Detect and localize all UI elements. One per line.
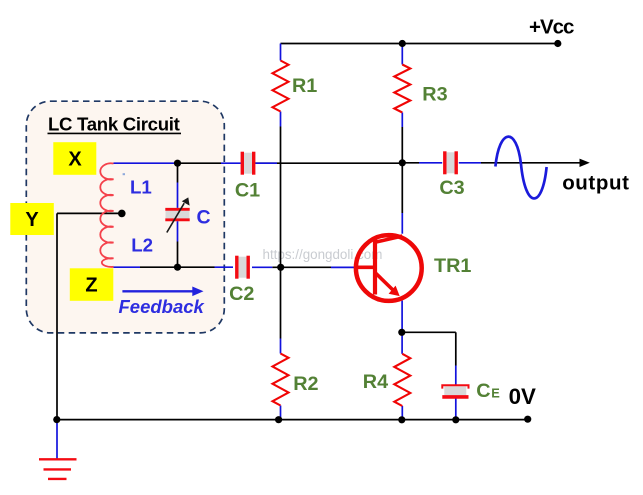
svg-text:C3: C3 [439,177,464,199]
svg-text:TR1: TR1 [434,255,471,277]
svg-text:L1: L1 [130,177,152,198]
svg-text:Z: Z [85,275,97,297]
svg-text:R2: R2 [293,373,318,395]
svg-text:R4: R4 [363,371,388,393]
svg-text:LC Tank Circuit: LC Tank Circuit [48,114,180,135]
svg-text:+Vcc: +Vcc [529,15,574,38]
svg-text:C2: C2 [229,283,254,305]
svg-text:Feedback: Feedback [119,296,206,317]
svg-text:R3: R3 [422,83,447,105]
svg-text:C1: C1 [235,180,260,202]
svg-text:output: output [562,171,629,194]
svg-text:X: X [68,148,82,170]
svg-text:Y: Y [25,209,39,231]
svg-text:0V: 0V [509,384,536,409]
svg-text:C: C [197,207,211,229]
svg-text:C: C [476,380,490,402]
svg-text:R1: R1 [292,75,317,97]
svg-text:L2: L2 [131,235,153,256]
svg-text:E: E [491,385,500,400]
